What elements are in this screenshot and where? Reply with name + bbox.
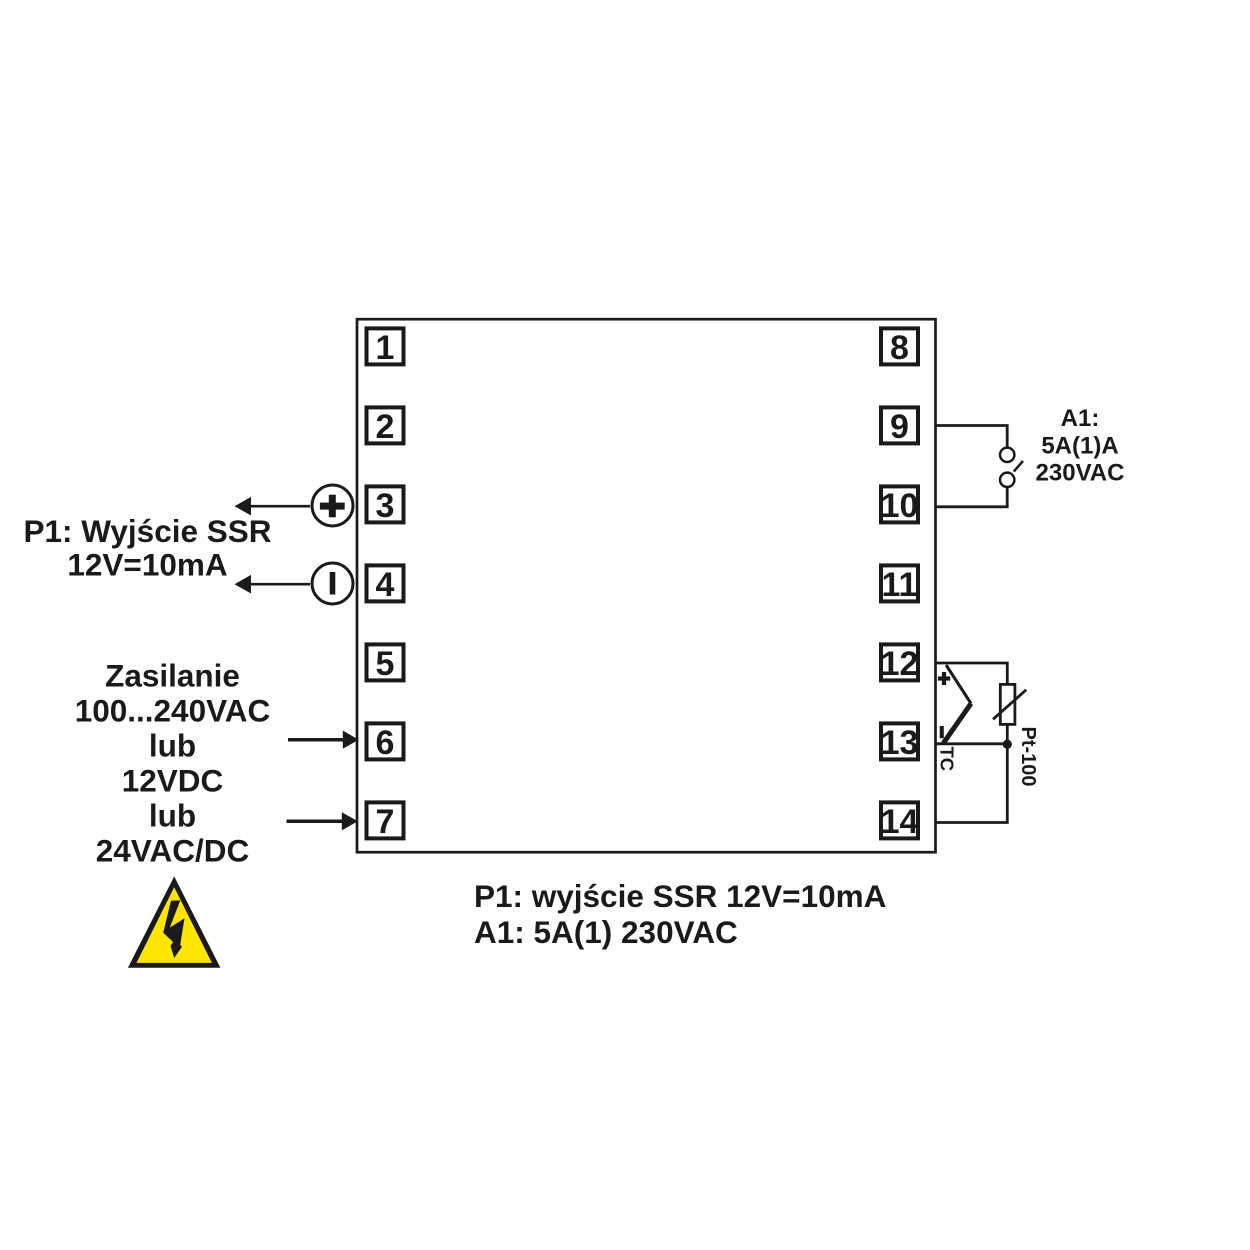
svg-text:10: 10 <box>881 487 919 525</box>
svg-text:14: 14 <box>881 803 919 841</box>
svg-text:lub: lub <box>149 728 196 764</box>
svg-text:3: 3 <box>376 487 395 525</box>
svg-text:2: 2 <box>376 408 395 446</box>
svg-text:7: 7 <box>376 803 395 841</box>
svg-text:TC: TC <box>936 747 957 772</box>
svg-text:13: 13 <box>881 724 919 762</box>
svg-text:5A(1)A: 5A(1)A <box>1041 432 1118 459</box>
svg-text:A1: 5A(1) 230VAC: A1: 5A(1) 230VAC <box>474 914 738 950</box>
svg-text:8: 8 <box>890 329 909 367</box>
svg-text:11: 11 <box>882 566 918 604</box>
svg-text:P1: wyjście SSR 12V=10mA: P1: wyjście SSR 12V=10mA <box>474 878 886 914</box>
svg-text:Zasilanie: Zasilanie <box>105 658 240 694</box>
svg-text:24VAC/DC: 24VAC/DC <box>96 833 249 869</box>
svg-text:12: 12 <box>881 645 919 683</box>
svg-text:Pt-100: Pt-100 <box>1017 727 1039 787</box>
svg-text:5: 5 <box>376 645 395 683</box>
svg-text:12VDC: 12VDC <box>122 763 224 799</box>
svg-text:4: 4 <box>376 566 395 604</box>
svg-text:6: 6 <box>376 724 395 762</box>
svg-text:230VAC: 230VAC <box>1036 460 1125 487</box>
svg-text:lub: lub <box>149 798 196 834</box>
svg-text:P1: Wyjście SSR: P1: Wyjście SSR <box>23 513 271 549</box>
svg-text:9: 9 <box>890 408 909 446</box>
svg-text:12V=10mA: 12V=10mA <box>67 547 227 583</box>
svg-text:1: 1 <box>376 329 395 367</box>
svg-text:100...240VAC: 100...240VAC <box>75 693 271 729</box>
svg-text:A1:: A1: <box>1061 405 1100 432</box>
